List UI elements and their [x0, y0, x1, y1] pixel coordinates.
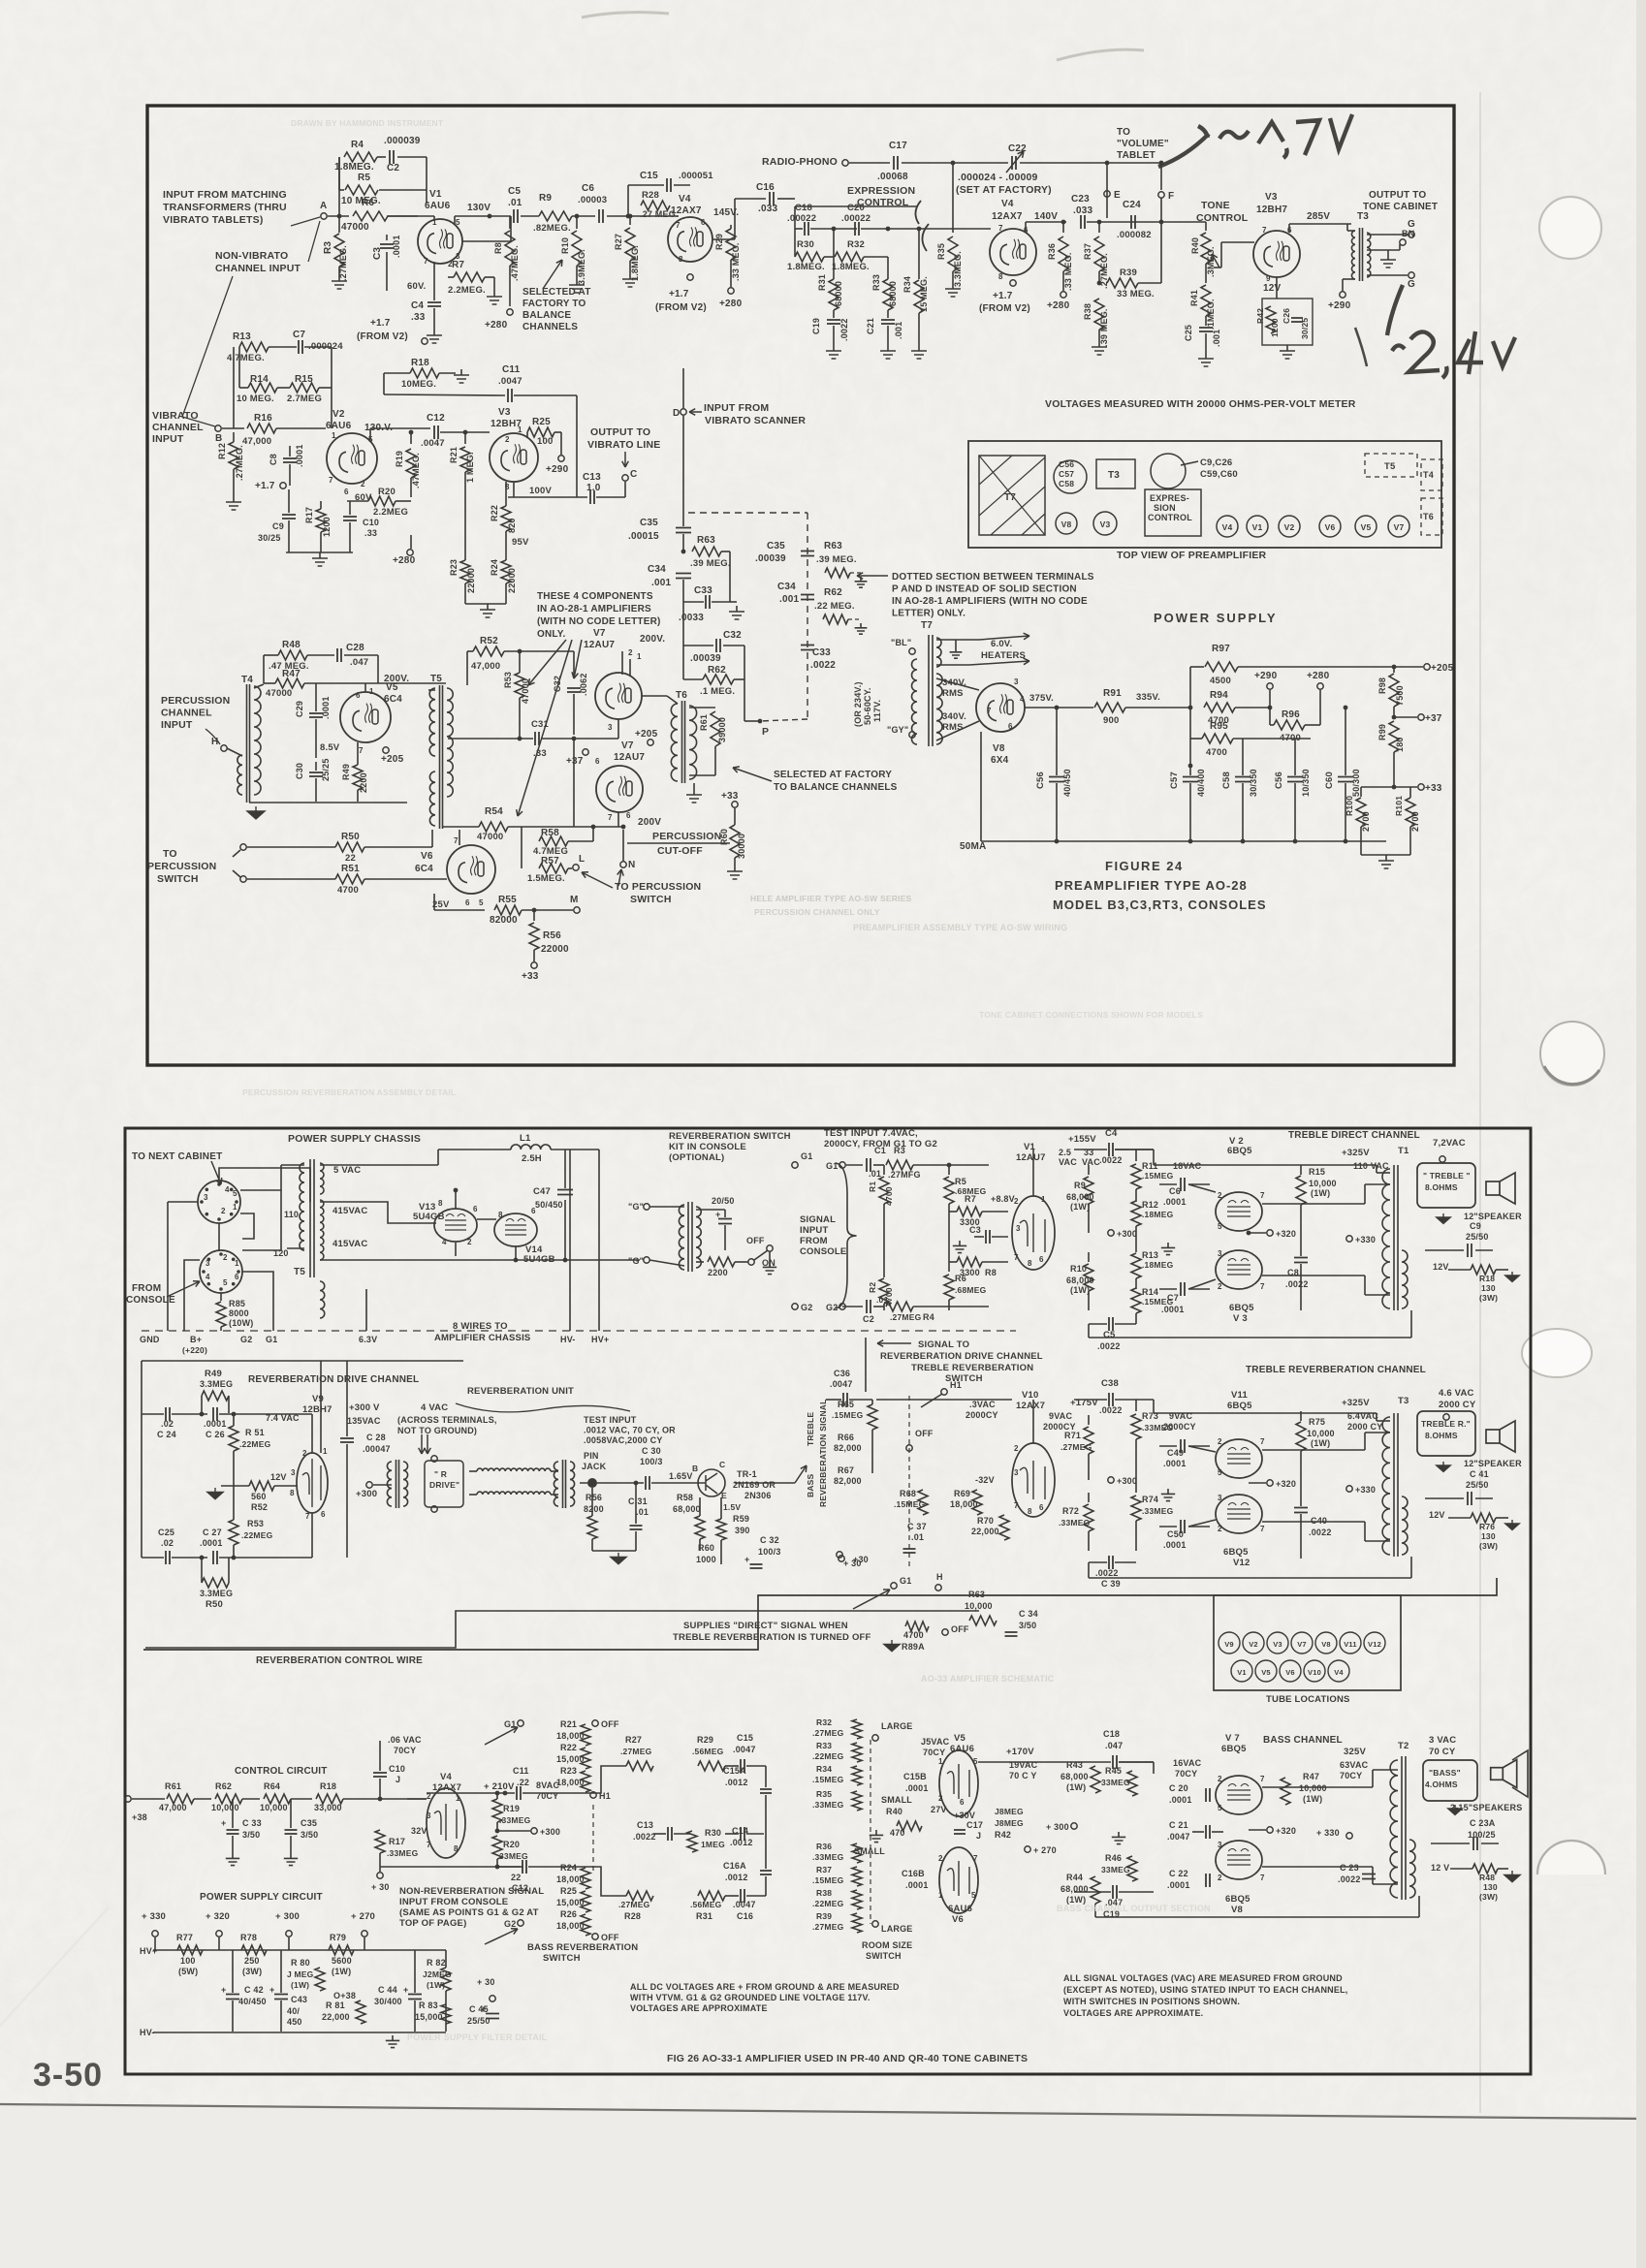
capacitor C40 [1300, 1483, 1302, 1506]
svg-text:C17: C17 [889, 141, 907, 151]
svg-text:22: 22 [345, 853, 356, 864]
svg-text:G2: G2 [240, 1335, 252, 1344]
capacitor C24b [166, 1407, 170, 1421]
svg-text:63VAC: 63VAC [1340, 1760, 1369, 1770]
svg-text:12AX7: 12AX7 [1016, 1401, 1045, 1411]
resistor R96 [1274, 720, 1305, 730]
terminals G G left [644, 1204, 649, 1210]
svg-text:R53: R53 [503, 672, 513, 688]
svg-text:VIBRATO TABLETS): VIBRATO TABLETS) [163, 214, 264, 226]
ground under C25 [1198, 353, 1214, 366]
svg-text:2: 2 [1218, 1775, 1222, 1783]
svg-text:V3: V3 [1265, 192, 1278, 203]
svg-text:+: + [221, 1985, 226, 1995]
node A [321, 213, 327, 219]
svg-text:CUT-OFF: CUT-OFF [657, 845, 703, 857]
terminal G1 supplies [891, 1583, 897, 1589]
HV- rail [153, 2032, 446, 2033]
resistor R22 vib [505, 482, 507, 488]
svg-text:.27MEG: .27MEG [812, 1922, 844, 1932]
junction dots power chassis [454, 1188, 459, 1193]
svg-text:.0001: .0001 [1163, 1197, 1187, 1207]
svg-text:R4: R4 [923, 1312, 934, 1322]
resistor R34 [918, 229, 920, 279]
wires to rectifier tubes [320, 1164, 438, 1166]
svg-text:C 30: C 30 [642, 1446, 661, 1456]
svg-text:7: 7 [454, 836, 459, 845]
capacitor C7t [1159, 1288, 1177, 1290]
capacitor C28 [337, 648, 341, 662]
svg-text:OFF: OFF [951, 1624, 969, 1634]
wire nonvib plate bus 130V [387, 215, 418, 217]
svg-text:ROOM SIZE: ROOM SIZE [862, 1940, 912, 1950]
svg-text:1: 1 [456, 1794, 460, 1803]
wire V6 cathode base [433, 894, 435, 910]
svg-text:25/25: 25/25 [321, 758, 331, 781]
svg-text:6C4: 6C4 [384, 694, 402, 705]
svg-text:R35: R35 [816, 1789, 832, 1799]
svg-text:3.3MEG: 3.3MEG [200, 1589, 233, 1598]
svg-text:R23: R23 [560, 1766, 577, 1776]
R DRIVE terminals [431, 1456, 437, 1462]
capacitor C50 [1159, 1526, 1177, 1528]
svg-text:R30: R30 [797, 239, 814, 250]
svg-text:L: L [579, 854, 585, 865]
svg-text:+ 300: + 300 [275, 1911, 300, 1922]
svg-text:1: 1 [369, 687, 374, 696]
svg-text:CHANNEL INPUT: CHANNEL INPUT [215, 263, 301, 274]
svg-text:V9: V9 [1224, 1640, 1234, 1649]
svg-text:.001: .001 [1212, 330, 1221, 347]
svg-text:R40: R40 [886, 1807, 902, 1816]
svg-text:R28: R28 [624, 1911, 641, 1921]
ground under R38 [1092, 341, 1107, 355]
wire V1 output to C5 junction [462, 240, 511, 242]
svg-text:6AU6: 6AU6 [950, 1744, 974, 1754]
svg-text:C6: C6 [582, 183, 594, 194]
spring end wires [469, 1470, 477, 1472]
svg-text:R11: R11 [1142, 1161, 1158, 1171]
svg-text:15,000: 15,000 [556, 1754, 585, 1764]
svg-text:C 34: C 34 [1019, 1609, 1038, 1619]
ground under T6 [693, 783, 695, 789]
svg-text:R74: R74 [1142, 1495, 1158, 1504]
svg-text:335V.: 335V. [1136, 692, 1160, 703]
svg-text:R29: R29 [714, 234, 724, 250]
capacitor C32 main [683, 645, 713, 646]
svg-text:82,000: 82,000 [834, 1443, 862, 1453]
label +1.7 from V2 under V4b [1010, 280, 1016, 286]
svg-text:+325V: +325V [1342, 1148, 1370, 1158]
svg-text:R63: R63 [968, 1590, 985, 1599]
svg-text:R57: R57 [541, 856, 559, 866]
vertical riser to feedback [338, 157, 340, 216]
svg-text:16VAC: 16VAC [1173, 1758, 1202, 1768]
svg-text:.00039: .00039 [755, 553, 786, 564]
svg-text:2.7MEG: 2.7MEG [287, 394, 322, 404]
svg-text:R61: R61 [699, 714, 709, 731]
svg-text:M: M [570, 895, 579, 905]
capacitor C1 [846, 1164, 863, 1166]
svg-text:T1: T1 [1398, 1146, 1409, 1156]
capacitor C2 [377, 156, 386, 158]
svg-text:.15MEG: .15MEG [812, 1775, 844, 1784]
svg-text:V4: V4 [1222, 522, 1233, 532]
svg-text:V8: V8 [993, 743, 1005, 754]
svg-text:INPUT: INPUT [161, 719, 193, 731]
svg-text:1MEG: 1MEG [701, 1840, 725, 1849]
svg-text:OFF: OFF [915, 1429, 934, 1438]
svg-text:R50: R50 [206, 1599, 223, 1610]
svg-text:R56: R56 [586, 1493, 602, 1502]
tube V5 6C4 [340, 692, 391, 742]
svg-text:4.6 VAC: 4.6 VAC [1439, 1388, 1474, 1399]
svg-text:3.9MEG.: 3.9MEG. [577, 249, 586, 285]
pin jack symbol [587, 1478, 597, 1488]
tube V3 12BH7 [1253, 231, 1300, 277]
capacitor C12 vib [434, 425, 438, 439]
svg-text:R18: R18 [1479, 1274, 1495, 1283]
svg-text:R19: R19 [395, 451, 404, 467]
svg-text:+205: +205 [381, 754, 404, 765]
vibrato feedback wires [233, 347, 235, 428]
svg-text:.47MEG.: .47MEG. [411, 453, 421, 488]
svg-text:1: 1 [332, 431, 336, 440]
svg-text:4.OHMS: 4.OHMS [1425, 1780, 1458, 1789]
wire R6 to V1 [388, 215, 434, 217]
svg-text:R26: R26 [560, 1909, 577, 1919]
svg-text:8.5V: 8.5V [320, 742, 340, 753]
svg-text:.0062: .0062 [579, 673, 588, 696]
svg-text:C28: C28 [346, 643, 364, 653]
svg-text:.00022: .00022 [787, 213, 816, 224]
svg-text:R12: R12 [1142, 1200, 1158, 1210]
svg-text:6: 6 [701, 218, 706, 227]
capacitor C4t [1109, 1143, 1113, 1156]
tube V11 6BQ5 [1216, 1439, 1262, 1478]
svg-text:T2: T2 [1398, 1741, 1409, 1751]
svg-text:25/50: 25/50 [1466, 1480, 1489, 1490]
svg-text:TO: TO [1117, 127, 1130, 138]
svg-text:.68MEG: .68MEG [955, 1285, 987, 1295]
svg-text:25/50: 25/50 [1466, 1232, 1489, 1242]
ground under R23 R24 [465, 603, 506, 605]
T3 secondary coil [1367, 233, 1371, 277]
svg-text:V12: V12 [1368, 1640, 1381, 1649]
svg-text:"GY": "GY" [887, 725, 908, 735]
svg-text:R79: R79 [330, 1933, 346, 1942]
svg-text:70CY: 70CY [536, 1791, 558, 1801]
svg-text:L1: L1 [520, 1133, 531, 1144]
svg-text:1.8MEG.: 1.8MEG. [334, 162, 374, 173]
svg-text:PERCUSSION REVERBERATION ASS: PERCUSSION REVERBERATION ASSEMBLY DETAIL [242, 1087, 456, 1097]
svg-text:C 32: C 32 [760, 1535, 779, 1545]
svg-text:R63: R63 [824, 541, 842, 551]
svg-text:1.0: 1.0 [586, 483, 601, 493]
bass speaker box [1423, 1760, 1477, 1801]
resistor R47 [275, 678, 304, 688]
svg-text:PERCUSSION: PERCUSSION [147, 861, 216, 872]
wire vibrato main line [222, 427, 244, 429]
resistor R4 [344, 152, 377, 162]
resistor R58 [521, 827, 522, 841]
wires HV out [569, 1150, 571, 1331]
svg-text:C16: C16 [756, 182, 775, 193]
svg-text:R14: R14 [250, 374, 269, 385]
svg-text:12 V: 12 V [1431, 1863, 1449, 1873]
svg-text:2: 2 [1014, 1197, 1019, 1206]
T1 primary coil [1382, 1169, 1390, 1308]
svg-text:5600: 5600 [332, 1956, 352, 1966]
terminal F [1158, 192, 1164, 198]
capacitor C31 [535, 732, 539, 745]
svg-text:6: 6 [321, 1510, 326, 1519]
capacitor C29 [309, 713, 323, 717]
resistor R24 vib [501, 560, 511, 583]
svg-text:R10: R10 [560, 237, 570, 254]
svg-text:1: 1 [323, 1447, 328, 1456]
transformer T3b core [1394, 1413, 1398, 1557]
svg-text:C9: C9 [272, 521, 284, 531]
resistor R5t [948, 1165, 950, 1175]
ground R7 network [953, 1241, 966, 1253]
tube V6 6C4 [447, 845, 495, 894]
svg-text:SMALL: SMALL [881, 1795, 912, 1805]
svg-text:.01: .01 [636, 1507, 649, 1517]
capacitors C56 C57 C58 in top view [1054, 460, 1087, 493]
svg-text:.0047: .0047 [733, 1745, 756, 1754]
resistor R97 [1190, 666, 1204, 668]
svg-text:BASS REVERBERATION: BASS REVERBERATION [527, 1942, 638, 1953]
switch OFF ON [748, 1259, 754, 1265]
svg-text:+8.8V: +8.8V [991, 1194, 1015, 1204]
svg-text:6: 6 [344, 488, 349, 496]
svg-text:R 83: R 83 [419, 2000, 438, 2010]
svg-text:4: 4 [442, 1238, 447, 1246]
svg-text:G: G [1408, 279, 1415, 290]
tube V3 in top view [1093, 512, 1117, 535]
resistor R49 percussion [353, 765, 363, 790]
svg-text:TO BALANCE CHANNELS: TO BALANCE CHANNELS [774, 782, 898, 793]
svg-text:R42: R42 [1255, 308, 1265, 324]
svg-text:6: 6 [626, 811, 631, 820]
T4 secondary coil [254, 686, 261, 795]
svg-text:(10W): (10W) [229, 1318, 254, 1328]
resistor R12 vib [233, 432, 235, 442]
svg-text:.39 MEG.: .39 MEG. [1099, 308, 1109, 347]
svg-text:TO: TO [163, 848, 177, 860]
svg-text:R69: R69 [954, 1489, 970, 1498]
terminal G1 treble [839, 1162, 845, 1168]
resistor R99 [1389, 721, 1399, 752]
svg-text:G1: G1 [266, 1335, 277, 1344]
svg-text:C 33: C 33 [242, 1818, 262, 1828]
T2 primary coil [1390, 1760, 1398, 1898]
svg-text:C31: C31 [531, 719, 550, 730]
svg-text:SION: SION [1154, 503, 1176, 513]
svg-text:82,000: 82,000 [834, 1476, 862, 1486]
resistor R36 [1062, 222, 1064, 233]
resistor R75 [1300, 1411, 1302, 1421]
4VAC arrows [421, 1434, 423, 1454]
svg-text:R22: R22 [490, 505, 499, 521]
svg-text:50MA: 50MA [960, 841, 986, 852]
socket wires [168, 1201, 198, 1203]
capacitor C47 [564, 1150, 566, 1188]
svg-text:R52: R52 [251, 1502, 268, 1512]
svg-text:HEATERS: HEATERS [981, 650, 1026, 661]
resistor R7t [957, 1207, 982, 1216]
svg-text:VIBRATO SCANNER: VIBRATO SCANNER [705, 415, 806, 426]
svg-text:JACK: JACK [582, 1462, 607, 1471]
svg-text:+: + [403, 1985, 408, 1995]
svg-text:.22MEG: .22MEG [239, 1439, 271, 1449]
svg-text:(5W): (5W) [178, 1967, 198, 1976]
terminal +290 [1269, 690, 1271, 708]
svg-text:.0001: .0001 [321, 696, 331, 719]
R DRIVE box [425, 1461, 463, 1507]
svg-text:340V.: 340V. [942, 711, 966, 722]
T7 HV winding [936, 674, 942, 744]
svg-text:70 C Y: 70 C Y [1009, 1771, 1037, 1780]
svg-text:15,000: 15,000 [556, 1898, 585, 1907]
capacitor C3 [386, 235, 388, 240]
svg-text:.33MEG: .33MEG [1142, 1506, 1174, 1516]
svg-text:+ 30: + 30 [843, 1559, 862, 1568]
svg-text:V6: V6 [1285, 1668, 1295, 1677]
reverb switch transformer core [688, 1202, 692, 1272]
svg-text:22,000: 22,000 [322, 2012, 350, 2022]
capacitor C24 [1131, 215, 1135, 229]
svg-text:.0058VAC,2000 CY: .0058VAC,2000 CY [584, 1435, 663, 1445]
svg-text:C 28: C 28 [366, 1433, 386, 1442]
svg-text:.0022: .0022 [810, 660, 836, 671]
terminal G2 row [518, 1920, 523, 1926]
resistor R38 [1094, 299, 1104, 330]
svg-text:R34: R34 [902, 276, 912, 293]
svg-text:HV-: HV- [140, 2028, 155, 2037]
svg-text:2N169 OR: 2N169 OR [733, 1480, 776, 1490]
svg-text:POWER SUPPLY CIRCUIT: POWER SUPPLY CIRCUIT [200, 1892, 323, 1903]
svg-text:R18: R18 [320, 1781, 336, 1791]
svg-text:68,000: 68,000 [673, 1504, 701, 1514]
label +320 trebrev [1267, 1480, 1273, 1486]
ground V9 grid return [207, 1488, 223, 1499]
terminal +270 bass [1025, 1846, 1030, 1852]
svg-text:9VAC: 9VAC [1049, 1411, 1072, 1421]
svg-text:.01: .01 [508, 198, 522, 208]
svg-text:8.OHMS: 8.OHMS [1425, 1431, 1458, 1440]
capacitor C32 coupling [573, 651, 575, 678]
svg-text:12V: 12V [1429, 1510, 1445, 1520]
tube V9 12BH7 [297, 1453, 328, 1513]
svg-text:1: 1 [235, 1259, 239, 1268]
svg-text:C29: C29 [295, 701, 304, 717]
svg-text:+: + [221, 1818, 226, 1828]
svg-text:7: 7 [998, 224, 1003, 233]
svg-text:117V.: 117V. [872, 700, 882, 722]
svg-text:.3VAC: .3VAC [969, 1400, 996, 1409]
tube V12 6BQ5 [1216, 1495, 1262, 1533]
switch H1 control [590, 1792, 596, 1798]
svg-text:R41: R41 [1189, 290, 1199, 306]
resistor R12t [1131, 1201, 1141, 1226]
resistor R57 [521, 841, 522, 868]
svg-text:6: 6 [960, 1798, 965, 1807]
svg-text:7: 7 [359, 746, 364, 755]
tube V4b 12AX7 [990, 229, 1036, 275]
capacitor C8t [1300, 1233, 1302, 1256]
svg-text:7: 7 [424, 257, 428, 266]
svg-text:.001: .001 [779, 594, 800, 605]
tube location circles row 1 [1219, 1632, 1240, 1654]
resistor R101 [1406, 798, 1415, 827]
svg-text:135VAC: 135VAC [347, 1416, 381, 1426]
svg-text:(SAME AS POINTS G1 & G2 AT: (SAME AS POINTS G1 & G2 AT [399, 1907, 539, 1918]
svg-text:47,000: 47,000 [242, 436, 271, 447]
node P [758, 719, 763, 724]
tube location circles row 2 [1231, 1660, 1252, 1682]
resistor R20 vib [368, 496, 396, 506]
wire C35 chain down to C32 [682, 602, 684, 646]
svg-text:7500: 7500 [1395, 685, 1405, 706]
T7 heater winding [936, 638, 941, 667]
svg-text:100/25: 100/25 [1468, 1830, 1496, 1840]
svg-text:+: + [481, 2004, 486, 2014]
label +30 under R17b [379, 1867, 381, 1872]
svg-text:C7: C7 [293, 330, 305, 340]
resistor R13 [239, 342, 269, 352]
svg-text:C9: C9 [1470, 1221, 1481, 1231]
resistor R9t [1088, 1165, 1090, 1175]
capacitor C5 [514, 209, 518, 223]
switch G1 row [518, 1720, 523, 1726]
svg-text:SWITCH: SWITCH [866, 1951, 902, 1961]
svg-text:3: 3 [206, 1259, 210, 1268]
svg-text:+38: +38 [132, 1812, 147, 1822]
svg-text:9: 9 [1266, 274, 1271, 283]
svg-text:T3: T3 [1398, 1396, 1409, 1406]
svg-text:REVERBERATION SWITCH: REVERBERATION SWITCH [669, 1131, 791, 1142]
ground under R10 [569, 279, 585, 293]
svg-text:.82MEG.: .82MEG. [533, 223, 571, 234]
svg-text:12AU7: 12AU7 [614, 752, 645, 763]
svg-text:47,000: 47,000 [471, 661, 500, 672]
resistor R30 [794, 229, 796, 257]
resistor R73 [1135, 1400, 1137, 1411]
svg-text:1: 1 [938, 1891, 943, 1900]
svg-text:C 42: C 42 [244, 1985, 264, 1995]
svg-text:PREAMPLIFIER TYPE AO-28: PREAMPLIFIER TYPE AO-28 [1055, 878, 1248, 893]
svg-text:C3: C3 [372, 247, 383, 260]
svg-text:TEST INPUT: TEST INPUT [584, 1415, 637, 1425]
svg-text:1.65V: 1.65V [669, 1471, 693, 1481]
svg-text:V10: V10 [1308, 1668, 1321, 1677]
svg-text:R85: R85 [229, 1299, 245, 1308]
capacitor C11 vibrato [508, 389, 512, 402]
svg-text:15 MEG.: 15 MEG. [919, 276, 929, 312]
svg-text:C17: C17 [966, 1820, 983, 1830]
svg-text:.0001: .0001 [1163, 1540, 1187, 1550]
frame of fig 26 block [125, 1128, 1531, 2074]
resistor R63 main [682, 534, 684, 551]
svg-text:TREBLE REVERBERATION: TREBLE REVERBERATION [911, 1363, 1033, 1373]
T5 primary coil [447, 688, 453, 797]
svg-text:4: 4 [225, 1185, 230, 1194]
wire V4b plate to C23 [1025, 222, 1027, 233]
svg-text:5: 5 [479, 898, 484, 907]
svg-text:47000: 47000 [477, 832, 503, 842]
